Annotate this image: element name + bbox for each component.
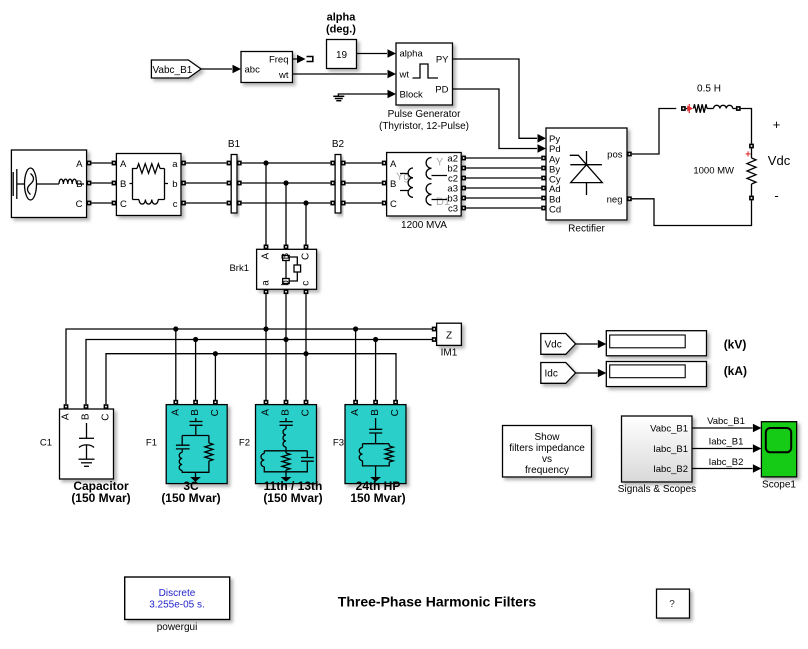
label Capacitor (150 Mvar) (71, 479, 130, 505)
wire transformer b3 to rectifier (461, 196, 546, 201)
svg-text:C: C (390, 199, 397, 210)
svg-text:c: c (301, 281, 312, 286)
svg-text:A: A (390, 159, 397, 170)
label alpha (deg.) (326, 12, 356, 36)
svg-text:A: A (350, 409, 361, 416)
wire Vabc_B1 to abc block (201, 65, 241, 74)
three-phase source block (11, 150, 86, 218)
svg-text:(deg.): (deg.) (326, 24, 356, 36)
wire B2 to transformer phase A (346, 161, 387, 166)
wire Vabc_B1 to scope (692, 416, 761, 432)
svg-text:0.5 H: 0.5 H (697, 84, 721, 95)
svg-text:Show: Show (534, 432, 560, 443)
wire wt to Pulse Generator (293, 70, 397, 79)
wire source B to RL block (87, 181, 117, 186)
filter F2 (11th/13th) (256, 400, 317, 484)
wire PY to Py (453, 59, 547, 143)
svg-text:C: C (76, 199, 83, 210)
svg-text:Z: Z (446, 330, 452, 341)
svg-text:B: B (281, 409, 292, 416)
wire Idc to display (576, 369, 607, 378)
svg-text:(150 Mvar): (150 Mvar) (71, 491, 130, 505)
svg-text:-: - (774, 188, 778, 203)
svg-text:F1: F1 (146, 438, 157, 449)
svg-text:1000 MW: 1000 MW (693, 166, 734, 177)
wire RL b to bus B1 (181, 181, 231, 186)
wire F1 phase drops (176, 329, 216, 402)
svg-text:a: a (261, 280, 272, 286)
svg-text:Cd: Cd (549, 204, 561, 215)
svg-text:A: A (170, 409, 181, 416)
filter F3 (24th HP) (345, 400, 406, 484)
svg-text:C: C (301, 409, 312, 416)
wire B2 to transformer phase C (346, 201, 387, 206)
svg-text:Brk1: Brk1 (229, 263, 249, 274)
wire phase C down to Brk1 (304, 203, 309, 249)
svg-text:A: A (261, 409, 272, 416)
wire Freq to terminator (293, 55, 306, 64)
svg-text:Yg: Yg (396, 171, 409, 183)
wire pos to smoothing reactor (627, 109, 676, 157)
wire Brk1 b down to LV bus (284, 289, 289, 402)
svg-text:wt: wt (399, 70, 410, 81)
svg-text:C: C (101, 414, 112, 421)
capacitor bank C1 (60, 404, 114, 479)
svg-text:Iabc_B2: Iabc_B2 (709, 457, 744, 468)
svg-text:Vabc_B1: Vabc_B1 (707, 416, 745, 427)
svg-text:B2: B2 (332, 139, 345, 150)
junction F2-C (303, 351, 308, 356)
svg-text:C: C (120, 199, 127, 210)
svg-text:Y: Y (436, 157, 444, 169)
rectifier U2 (546, 128, 627, 220)
wire 19 to alpha input (357, 49, 397, 58)
svg-text:Idc: Idc (545, 369, 558, 380)
pulse generator U1 (Thyristor 12-Pulse) (396, 43, 453, 105)
transformer 1200 MVA (387, 153, 462, 217)
wire RL a to bus B1 (181, 161, 231, 166)
junction phase A tap (263, 160, 268, 165)
svg-text:Vabc_B1: Vabc_B1 (153, 65, 193, 76)
wire B1 to B2 phase A (242, 161, 335, 166)
junction F3-B (373, 337, 378, 342)
svg-text:Signals & Scopes: Signals & Scopes (618, 484, 696, 495)
svg-text:(kV): (kV) (724, 338, 747, 352)
net bus line A (66, 329, 432, 404)
svg-text:Vabc_B1: Vabc_B1 (650, 423, 688, 434)
abc to Freq/wt converter block (241, 52, 293, 83)
svg-text:vs: vs (542, 454, 552, 465)
svg-text:(150 Mvar): (150 Mvar) (161, 491, 220, 505)
series RL impedance block (116, 154, 181, 216)
wire Iabc_B1 to scope (692, 437, 761, 453)
wire transformer a2 to rectifier (461, 156, 546, 161)
wire B1 to B2 phase C (242, 201, 335, 206)
svg-text:wt: wt (278, 70, 289, 81)
breaker Brk1 (257, 249, 317, 289)
svg-text:Pulse Generator: Pulse Generator (388, 109, 461, 120)
impedance meter IM1 (432, 323, 462, 345)
svg-text:B: B (120, 179, 126, 190)
svg-text:+: + (773, 117, 781, 132)
label 11th / 13th (150 Mvar) (263, 479, 322, 505)
svg-text:IM1: IM1 (441, 348, 458, 359)
wire transformer a3 to rectifier (461, 186, 546, 191)
svg-text:A: A (261, 252, 272, 259)
net bus line C (106, 354, 396, 404)
wire transformer c2 to rectifier (461, 176, 546, 181)
label Pulse Generator (Thyristor, 12-Pulse) (379, 109, 469, 132)
svg-text:Discrete: Discrete (159, 588, 196, 599)
wire phase B down to Brk1 (284, 183, 289, 249)
wire phase A down to Brk1 (264, 163, 269, 249)
junction phase C tap (303, 200, 308, 205)
svg-text:A: A (76, 159, 83, 170)
svg-text:Iabc_B1: Iabc_B1 (709, 437, 744, 448)
wire RL c to bus B1 (181, 201, 231, 206)
svg-text:B: B (190, 409, 201, 416)
svg-text:Iabc_B1: Iabc_B1 (653, 444, 688, 455)
svg-text:PY: PY (436, 55, 449, 66)
svg-text:powergui: powergui (157, 622, 198, 633)
svg-text:Three-Phase Harmonic Filters: Three-Phase Harmonic Filters (338, 594, 537, 610)
bus B1 (228, 139, 242, 213)
svg-text:C: C (390, 409, 401, 416)
wire transformer b2 to rectifier (461, 166, 546, 171)
wire PD to Pd (453, 89, 547, 153)
wire reactor to load resistor (741, 109, 752, 144)
wire Brk1 c down to LV bus (304, 289, 309, 402)
wire Brk1 a down to LV bus (264, 289, 269, 402)
junction F1-B (193, 337, 198, 342)
ground G1 (333, 90, 396, 101)
svg-text:Vdc: Vdc (545, 340, 562, 351)
svg-text:B: B (76, 179, 82, 190)
svg-text:A: A (120, 159, 127, 170)
net bus line B (86, 340, 432, 405)
smoothing reactor 0.5 H (series RL) (681, 104, 741, 113)
svg-text:C1: C1 (40, 438, 52, 449)
from tag Idc (541, 363, 576, 384)
wire Vdc to display (576, 340, 607, 349)
junction F2-B (283, 337, 288, 342)
junction F1-A (173, 326, 178, 331)
display Idc (kA) (606, 362, 706, 387)
svg-text:C: C (210, 409, 221, 416)
svg-text:c3: c3 (448, 204, 458, 215)
constant block 19 (327, 40, 357, 69)
svg-text:Freq: Freq (269, 54, 289, 65)
help block ? (657, 589, 690, 618)
block Show filters impedance vs frequency (503, 426, 592, 478)
svg-text:?: ? (669, 599, 675, 610)
junction F2-A (263, 326, 268, 331)
svg-text:1200 MVA: 1200 MVA (401, 220, 447, 231)
svg-text:(kA): (kA) (724, 364, 747, 378)
wire B1 to B2 phase B (242, 181, 335, 186)
display Vdc (kV) (606, 331, 706, 356)
svg-text:(150 Mvar): (150 Mvar) (263, 491, 322, 505)
svg-text:(Thyristor, 12-Pulse): (Thyristor, 12-Pulse) (379, 121, 469, 132)
svg-text:Rectifier: Rectifier (568, 224, 605, 235)
svg-text:B: B (370, 409, 381, 416)
svg-text:Scope1: Scope1 (762, 480, 796, 491)
svg-text:C: C (301, 253, 312, 260)
svg-text:pos: pos (607, 150, 623, 161)
svg-text:19: 19 (336, 50, 348, 61)
svg-text:B: B (81, 413, 92, 420)
wire source C to RL block (87, 201, 117, 206)
thyristor icon (570, 151, 603, 195)
svg-text:Iabc_B2: Iabc_B2 (653, 464, 688, 475)
svg-text:alpha: alpha (327, 12, 357, 24)
powergui block (125, 577, 230, 620)
wire transformer c3 to rectifier (461, 206, 546, 211)
from tag Vdc (541, 334, 576, 355)
svg-text:b: b (172, 179, 177, 190)
svg-text:PD: PD (435, 85, 448, 96)
junction F3-A (353, 326, 358, 331)
svg-text:alpha: alpha (400, 49, 424, 60)
load resistor 1000 MW (745, 144, 756, 201)
svg-text:frequency: frequency (525, 465, 569, 476)
label 3C (150 Mvar) (161, 479, 220, 505)
svg-text:a: a (172, 159, 178, 170)
svg-text:3.255e-05 s.: 3.255e-05 s. (149, 600, 205, 611)
from tag Vabc_B1 (151, 60, 201, 78)
svg-text:B1: B1 (228, 139, 241, 150)
svg-text:filters impedance: filters impedance (509, 443, 585, 454)
svg-text:c: c (173, 199, 178, 210)
svg-text:150 Mvar): 150 Mvar) (350, 491, 405, 505)
wire B2 to transformer phase B (346, 181, 387, 186)
junction phase B tap (283, 180, 288, 185)
svg-text:F3: F3 (333, 438, 344, 449)
wire neg to load bottom (627, 196, 752, 225)
scope Scope1 (761, 422, 796, 477)
svg-text:abc: abc (245, 65, 261, 76)
svg-text:Vdc: Vdc (768, 153, 791, 168)
label 24th HP 150 Mvar) (350, 479, 405, 505)
wire source A to RL block (87, 161, 117, 166)
terminator T1 (307, 57, 313, 62)
wire F3 phase drops (356, 329, 376, 402)
filter F1 (3C) (166, 400, 227, 484)
svg-text:Block: Block (400, 90, 423, 101)
svg-text:neg: neg (607, 194, 623, 205)
wire Iabc_B2 to scope (692, 457, 761, 473)
svg-text:+: + (745, 150, 751, 161)
bus B2 (332, 139, 346, 213)
svg-text:F2: F2 (239, 438, 250, 449)
svg-text:A: A (61, 413, 72, 420)
junction F1-C (213, 351, 218, 356)
